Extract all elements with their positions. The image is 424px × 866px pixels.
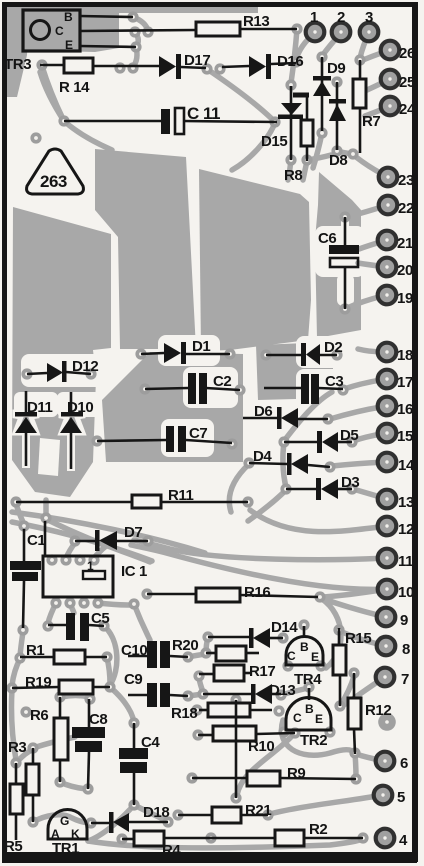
svg-text:D7: D7 xyxy=(124,524,142,541)
pad IC1 pin top 1 xyxy=(46,554,57,565)
wire R18 right xyxy=(250,709,272,712)
pad TR3 C xyxy=(129,26,140,37)
pad R9 right xyxy=(350,773,361,784)
wire R8 top xyxy=(306,96,309,120)
svg-text:21: 21 xyxy=(397,235,413,252)
svg-text:C: C xyxy=(55,24,64,38)
wire R21 right xyxy=(241,814,268,817)
node 16 xyxy=(378,397,413,418)
wire R2 right xyxy=(304,837,363,840)
node 10 xyxy=(378,580,414,601)
wire C7 left xyxy=(97,440,166,441)
op-amp IC1 xyxy=(43,556,147,597)
wire R3 top xyxy=(32,748,35,764)
pad R6 top xyxy=(54,691,65,702)
pad TR3 E xyxy=(130,41,141,52)
svg-text:D14: D14 xyxy=(271,619,298,636)
pad R3 top xyxy=(27,742,38,753)
svg-text:E: E xyxy=(315,712,323,726)
pad R3 bottom xyxy=(27,816,38,827)
wire D16 left xyxy=(222,66,249,67)
diode D11 xyxy=(15,399,53,433)
pad D18 right xyxy=(162,816,173,827)
svg-text:5: 5 xyxy=(397,789,405,806)
diode D13 xyxy=(251,682,295,704)
pad TR2 E xyxy=(324,726,335,737)
wire trace left fan 1 xyxy=(12,512,205,553)
wire C5 right xyxy=(89,625,104,626)
wire D11 top xyxy=(25,391,28,413)
diode D3 xyxy=(316,474,359,500)
pad C1 bottom xyxy=(17,624,28,635)
pad C2 left xyxy=(139,383,150,394)
resistor R11 xyxy=(132,487,194,508)
white halo D1 xyxy=(158,335,220,366)
wire trace pad 22 to C6 xyxy=(346,205,388,217)
svg-text:R12: R12 xyxy=(365,702,391,719)
white halo C7 xyxy=(161,419,214,457)
wire R12 bottom xyxy=(354,729,355,754)
wire R14 left xyxy=(40,64,64,67)
wire C9 right xyxy=(170,695,188,696)
wire C2 right xyxy=(206,388,240,390)
wire casing C6 upper lead xyxy=(341,214,349,246)
svg-text:D5: D5 xyxy=(340,427,358,444)
node 2 xyxy=(332,9,351,41)
svg-text:17: 17 xyxy=(397,374,413,391)
white halo C3 xyxy=(296,369,350,407)
wire D18 left xyxy=(91,822,109,825)
copper pour top strip xyxy=(7,4,258,13)
pad D5 left xyxy=(278,436,289,447)
svg-text:D10: D10 xyxy=(67,399,93,416)
svg-text:18: 18 xyxy=(397,347,413,364)
svg-text:R13: R13 xyxy=(243,13,269,30)
diode D14 xyxy=(249,619,298,648)
wire R8 bottom xyxy=(306,146,309,161)
wire trace pad 18 xyxy=(358,349,387,352)
copper pour center-left block xyxy=(95,149,196,349)
svg-text:A: A xyxy=(51,827,60,841)
svg-text:263: 263 xyxy=(40,172,67,191)
svg-text:C: C xyxy=(287,649,296,663)
wire trace pad 2 xyxy=(322,33,341,56)
node 1 xyxy=(306,9,325,41)
wire R9 left xyxy=(192,777,247,780)
wire C10 left xyxy=(128,655,147,658)
svg-text:R1: R1 xyxy=(26,642,44,659)
wire trace pad 21 xyxy=(359,240,387,249)
pad R7 top xyxy=(354,54,365,65)
wire D1 left xyxy=(141,353,164,354)
svg-text:B: B xyxy=(64,10,73,24)
resistor R21 xyxy=(212,802,271,823)
wire D13 left xyxy=(203,693,251,696)
wire trace IC pin to C5 xyxy=(70,604,74,613)
pad C1 top xyxy=(18,520,29,531)
pad R18 right xyxy=(273,705,284,716)
wire D7 right xyxy=(117,540,148,543)
wire C2 left xyxy=(145,388,188,389)
pad TR2 C xyxy=(278,726,289,737)
svg-text:13: 13 xyxy=(398,494,414,511)
white halo D6 xyxy=(251,400,303,432)
pad R5 top xyxy=(10,757,21,768)
capacitor C11 xyxy=(161,104,220,134)
pad R21 right xyxy=(262,809,273,820)
wire trace pad 7 to R15 bottom xyxy=(342,677,385,706)
pad C5 left xyxy=(42,620,53,631)
pad C8 top xyxy=(84,693,95,704)
svg-text:E: E xyxy=(65,38,73,52)
diode D4 xyxy=(253,448,308,475)
pad D1 left xyxy=(135,348,146,359)
wire D6 right xyxy=(298,418,328,421)
diode D9 xyxy=(313,60,345,96)
capacitor C4 xyxy=(119,734,160,773)
transistor TR4 xyxy=(286,637,323,688)
pad node C-R13 xyxy=(142,26,153,37)
pad R18 left xyxy=(191,704,202,715)
svg-text:R3: R3 xyxy=(8,739,26,756)
white halo D4 xyxy=(244,446,337,478)
svg-text:C6: C6 xyxy=(318,230,336,247)
wire trace C4 to TR1 xyxy=(88,805,134,841)
pad IC1 pin bottom 2 xyxy=(64,597,75,608)
resistor R20 xyxy=(172,637,246,661)
node 19 xyxy=(378,286,413,307)
wire trace R19 left loop xyxy=(12,690,17,760)
wire casing D11 lower lead xyxy=(22,430,30,468)
wire trace left fan 2 xyxy=(12,522,152,561)
pad D12 left xyxy=(21,368,32,379)
wire D7 left xyxy=(75,540,95,543)
wire trace D14 to R20 xyxy=(206,637,208,652)
pad R16 left xyxy=(141,588,152,599)
wire trace pad 10 long xyxy=(131,545,387,589)
wire trace pad 13 xyxy=(353,489,387,499)
wire trace pad 14 xyxy=(332,462,387,466)
wire R5 bottom xyxy=(15,814,18,840)
svg-text:2: 2 xyxy=(337,9,345,26)
resistor R12 xyxy=(348,698,391,729)
wire R15 bottom xyxy=(339,675,342,706)
svg-text:B: B xyxy=(305,702,314,716)
svg-text:20: 20 xyxy=(397,262,413,279)
pad TR4 C xyxy=(282,660,293,671)
wire TR3 E line xyxy=(80,46,136,47)
pad IC1 pin bottom 1 xyxy=(50,597,61,608)
wire C3 left xyxy=(264,387,301,390)
wire D5 left xyxy=(284,441,317,444)
wire trace R8 pad down xyxy=(303,161,307,180)
wire R6 bottom xyxy=(59,760,62,782)
pad R11 right xyxy=(242,496,253,507)
svg-text:D2: D2 xyxy=(324,339,342,356)
wire trace pad B to C xyxy=(133,17,148,31)
svg-text:C8: C8 xyxy=(89,711,107,728)
wire trace pad 23 xyxy=(356,157,388,177)
svg-text:C10: C10 xyxy=(121,642,147,659)
wire C9 left xyxy=(128,694,147,697)
wire trace pad 10 xyxy=(323,589,387,597)
node 3 xyxy=(360,9,379,41)
wire trace pad 3 xyxy=(360,33,369,58)
diode D10 xyxy=(60,399,93,433)
wire trace C10 to R20 xyxy=(188,654,206,657)
node 26 xyxy=(381,41,415,62)
resistor R8 xyxy=(284,120,313,184)
svg-text:R2: R2 xyxy=(309,821,327,838)
svg-text:R 14: R 14 xyxy=(59,79,90,96)
wire C7 right xyxy=(186,440,232,443)
pad D2 right xyxy=(331,349,342,360)
wire trace R13 pad to D15 xyxy=(291,29,297,83)
marker triangle 263 xyxy=(27,149,84,194)
pad D8 bottom xyxy=(331,145,342,156)
pad R15 top xyxy=(333,624,344,635)
svg-text:1: 1 xyxy=(310,9,318,26)
pad R12 bottom xyxy=(349,747,360,758)
pad TR2 B top xyxy=(303,681,314,692)
wire D16 right xyxy=(271,63,296,64)
pad IC wire top xyxy=(40,512,51,523)
white halo R8 label xyxy=(281,161,311,184)
pad D4 left xyxy=(243,457,254,468)
diode D6 xyxy=(254,403,298,429)
svg-text:D11: D11 xyxy=(27,399,53,416)
wire trace IC pin to D7 xyxy=(65,543,75,560)
svg-text:23: 23 xyxy=(398,172,414,189)
wire R1 left xyxy=(20,656,54,659)
capacitor C1 xyxy=(10,532,45,581)
wire trace pad 17 xyxy=(344,379,387,389)
casing diode D10 symbol xyxy=(61,412,83,433)
wire D18 right xyxy=(128,821,168,824)
capacitor C3 xyxy=(301,373,343,404)
resistor R13 xyxy=(196,13,269,36)
pad R20 left xyxy=(200,647,211,658)
pad C10 right xyxy=(182,651,193,662)
wire trace R5 to R3 xyxy=(16,750,32,763)
wire R15 top xyxy=(338,628,341,645)
wire trace D5-D3 link xyxy=(283,442,286,488)
pad C3 right xyxy=(337,384,348,395)
wire trace R1 left down xyxy=(12,659,20,685)
capacitor C8 xyxy=(72,711,107,752)
pad D7 left xyxy=(69,535,80,546)
svg-text:C4: C4 xyxy=(141,734,160,751)
transistor TR2 xyxy=(286,698,331,750)
pad R1 right xyxy=(101,651,112,662)
white halo D2 xyxy=(296,336,352,368)
wire D8 vertical xyxy=(336,82,339,150)
svg-text:C7: C7 xyxy=(189,425,207,442)
white patch between D11 and D10 xyxy=(38,438,60,476)
wire trace D8 cluster xyxy=(337,151,352,154)
wire trace bottom long xyxy=(88,839,363,848)
wire D5 right xyxy=(338,441,352,444)
svg-text:8: 8 xyxy=(402,641,410,658)
node 23 xyxy=(379,168,414,189)
wire C6 top xyxy=(344,217,347,246)
svg-text:TR3: TR3 xyxy=(4,56,31,73)
diode D7 xyxy=(95,524,142,551)
svg-text:G: G xyxy=(60,814,69,828)
wire trace pour to IC wire pad xyxy=(43,500,49,517)
copper pour center block xyxy=(199,169,311,351)
wire R16 left xyxy=(147,593,196,596)
wire TR3 C line to R13 xyxy=(80,30,196,31)
resistor R3 xyxy=(8,739,39,795)
svg-text:R19: R19 xyxy=(25,674,51,691)
wire trace pad 20 xyxy=(358,263,387,267)
wire R1 right xyxy=(85,656,107,659)
svg-text:22: 22 xyxy=(398,200,414,217)
wire trace R10 to node xyxy=(237,733,295,795)
wire trace R12 to R9 xyxy=(355,754,356,778)
pad R17 left xyxy=(193,670,204,681)
wire trace pad 24 xyxy=(365,106,390,116)
wire R3 bottom xyxy=(32,795,35,822)
diode D17 xyxy=(159,52,210,79)
pad TR3 B xyxy=(127,11,138,22)
wire R7 top xyxy=(359,60,362,79)
copper pour left field xyxy=(12,207,111,497)
wire D14 left xyxy=(208,636,250,639)
pad D16 right xyxy=(290,56,301,67)
wire D2 left xyxy=(266,354,301,357)
svg-text:D17: D17 xyxy=(184,52,210,69)
pad IC1 pin top 4 xyxy=(88,554,99,565)
wire R10 left xyxy=(198,734,213,737)
svg-text:D18: D18 xyxy=(143,804,169,821)
node 5 xyxy=(374,786,405,806)
node 14 xyxy=(378,453,415,474)
node 6 xyxy=(376,752,408,772)
wire trace C8 to R6 xyxy=(62,696,90,698)
pad C4 bottom xyxy=(128,799,139,810)
pad R10 right xyxy=(289,727,300,738)
wire trace node to pour xyxy=(64,121,112,150)
pad node right of IC xyxy=(128,598,139,609)
pad D9 bottom xyxy=(316,127,327,138)
capacitor C9 xyxy=(124,671,170,707)
wire D14 right xyxy=(269,637,283,640)
pad C4 top xyxy=(128,717,139,728)
svg-text:D9: D9 xyxy=(327,60,345,77)
node 17 xyxy=(378,370,413,391)
svg-text:D12: D12 xyxy=(72,358,98,375)
wire R12 top xyxy=(353,673,356,698)
resistor R19 xyxy=(25,674,93,694)
wire trace TR4 loop xyxy=(322,599,341,668)
wire R18 left xyxy=(199,709,208,712)
diode D18 xyxy=(109,804,169,833)
wire trace pad 6 xyxy=(356,754,385,761)
wire trace pad 11 long xyxy=(134,540,387,560)
svg-text:9: 9 xyxy=(400,612,408,629)
wire trace IC pin right xyxy=(98,603,131,605)
wire R9 right xyxy=(280,778,356,779)
white halo D12 xyxy=(21,354,106,387)
resistor R5 xyxy=(4,784,23,855)
thyristor TR1 xyxy=(48,810,87,857)
svg-text:19: 19 xyxy=(397,290,413,307)
wire trace R15 bottom to R12 top xyxy=(340,676,354,706)
wire C1 top xyxy=(23,529,26,562)
wire R11 right xyxy=(161,501,248,504)
wire trace E down xyxy=(133,47,137,67)
node 8 xyxy=(377,637,410,658)
wire R7 bottom xyxy=(359,108,362,153)
wire D6 left xyxy=(243,417,277,420)
pad R19 right xyxy=(104,681,115,692)
wire trace D13 pad up xyxy=(281,688,308,695)
pad D13 right xyxy=(275,689,286,700)
svg-text:3: 3 xyxy=(365,9,373,26)
copper pour left upper strip xyxy=(7,4,29,97)
wire junction D15-R8 xyxy=(293,93,309,98)
wire D2 right xyxy=(320,354,337,357)
wire trace D13 to R17 xyxy=(199,678,203,692)
pad C11 left node xyxy=(58,115,69,126)
svg-text:C1: C1 xyxy=(27,532,45,549)
wire trace pad 25 xyxy=(367,79,390,90)
wire R16 right xyxy=(240,595,318,597)
resistor R1 xyxy=(26,642,85,664)
node 24 xyxy=(381,97,416,118)
pad D14 right xyxy=(277,632,288,643)
pad R7 bottom xyxy=(347,148,358,159)
wire trace D4 pad sweep xyxy=(229,464,249,512)
svg-text:IC 1: IC 1 xyxy=(121,563,147,580)
pad D3 left xyxy=(280,483,291,494)
diode D16 xyxy=(249,53,303,79)
pad R19 left xyxy=(6,682,17,693)
diode D8 xyxy=(329,99,347,169)
wire trace pad 5 to R21 xyxy=(270,795,383,814)
wire trace left fan 3 xyxy=(46,519,150,562)
wire trace R1-R19 right link xyxy=(107,658,110,684)
pad link top xyxy=(230,694,241,705)
svg-text:TR4: TR4 xyxy=(294,671,322,688)
white channel C6 wire xyxy=(337,274,354,306)
wire trace C9 to D13 xyxy=(188,694,203,696)
diode D15 xyxy=(261,103,303,150)
wire R13 right xyxy=(240,28,297,31)
wire trace TR2 loop xyxy=(281,720,355,755)
pad D1 right xyxy=(224,348,235,359)
svg-text:D6: D6 xyxy=(254,403,272,420)
pad C7 left xyxy=(91,435,102,446)
diode D12 xyxy=(47,358,98,382)
pad R1 left xyxy=(14,652,25,663)
pad D8 top xyxy=(331,76,342,87)
node 12 xyxy=(378,517,414,538)
pad C6 top xyxy=(339,211,350,222)
svg-text:R9: R9 xyxy=(287,765,305,782)
capacitor C5 xyxy=(66,610,109,641)
pad D2 left xyxy=(260,349,271,360)
wire vertical link node xyxy=(235,700,238,798)
resistor R10 xyxy=(213,726,274,755)
pad R12 top xyxy=(348,667,359,678)
pad R11 left xyxy=(10,496,21,507)
pad R2 right xyxy=(357,832,368,843)
wire trace pad 12 long xyxy=(250,510,387,532)
svg-text:12: 12 xyxy=(398,521,414,538)
